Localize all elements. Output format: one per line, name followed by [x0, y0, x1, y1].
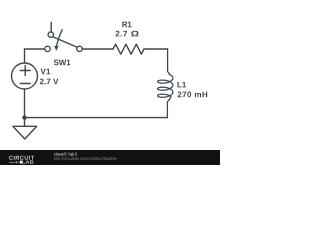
label R1: [122, 22, 131, 28]
footer logo CIRCUIT: [9, 156, 34, 160]
label R1 value: [116, 31, 128, 37]
label SW1: [54, 60, 71, 66]
wire top-left vertical: [24, 49, 26, 63]
wire source bottom: [24, 89, 26, 117]
ground stub: [24, 118, 26, 127]
switch SW1 lever: [53, 37, 77, 47]
footer bar: [0, 150, 220, 165]
label L1 value: [178, 92, 208, 98]
label V1: [41, 69, 51, 75]
label L1: [178, 82, 187, 88]
wire switch to resistor: [82, 48, 113, 50]
footer logo LAB: [22, 160, 33, 163]
wire bottom rail: [25, 117, 168, 119]
switch SW1 arrow head: [54, 46, 58, 51]
inductor L1 coil with terminals: [158, 49, 173, 118]
switch SW1 top throw terminal: [48, 32, 53, 37]
switch SW1 right terminal: [77, 46, 82, 51]
voltage source V1 circle: [12, 63, 38, 89]
label V1 value: [40, 79, 59, 85]
wire resistor to top-right corner: [144, 48, 168, 50]
voltage source plus sign: [20, 66, 30, 76]
switch SW1 left terminal: [45, 46, 50, 51]
footer url: [54, 157, 117, 161]
resistor R1 zigzag: [113, 44, 144, 54]
voltage source minus sign: [20, 83, 30, 85]
label R1 unit ohm: [131, 31, 139, 37]
wire top-left horizontal: [25, 48, 45, 50]
switch SW1 top throw stub: [50, 22, 52, 32]
ground triangle: [13, 126, 37, 139]
switch SW1 actuation arrow arc: [56, 30, 62, 47]
footer logo wave marks: [9, 162, 15, 163]
junction node at ground: [22, 115, 26, 119]
footer title: [54, 152, 77, 155]
